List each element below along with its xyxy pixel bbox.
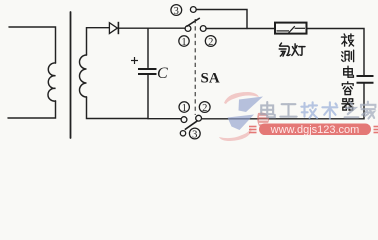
watermark logo swoosh top	[219, 92, 269, 141]
wire contact 3 top to junction	[196, 10, 247, 29]
switch SA top blade	[187, 18, 200, 27]
watermark logo blue wedge lower	[228, 115, 255, 131]
label neon lamp (nai deng)	[279, 43, 305, 56]
transformer core	[70, 12, 72, 138]
switch SA top pole contacts	[185, 7, 206, 32]
wm char shu	[322, 102, 337, 118]
char bei	[341, 34, 353, 46]
wire bottom to switch pole 2	[148, 118, 181, 120]
capacitor C polarity plus	[131, 57, 138, 64]
terminal label 1 bottom	[179, 102, 189, 112]
char rong	[342, 82, 353, 95]
wire bottom-left primary lead	[8, 101, 56, 118]
transformer T1 primary winding	[48, 63, 56, 101]
watermark site name	[261, 102, 375, 119]
wire tested capacitor bottom lead	[202, 84, 364, 119]
label tested capacitor (bei ce dian rong qi) vertical	[341, 34, 353, 110]
tested capacitor Cx plates	[357, 76, 374, 83]
neon lamp box	[275, 23, 307, 34]
wm char jia	[361, 102, 375, 119]
wire secondary top lead	[87, 28, 110, 55]
svg-text:www.dgjs123.com: www.dgjs123.com	[270, 124, 360, 136]
char nai	[279, 43, 290, 56]
terminal label 3 top	[171, 5, 182, 16]
wm char zhi	[345, 102, 359, 117]
char dian	[344, 66, 354, 77]
watermark logo red coil icon	[257, 113, 269, 127]
svg-text:1: 1	[181, 37, 186, 48]
svg-text:C: C	[157, 65, 168, 82]
switch SA linkage dashed line	[194, 19, 196, 115]
char ce	[342, 50, 354, 61]
char qi	[342, 99, 354, 110]
svg-text:3: 3	[192, 129, 197, 140]
watermark logo blue wedge upper	[239, 97, 264, 113]
wm char gong	[280, 104, 296, 117]
wire capacitor C bottom lead	[147, 75, 149, 119]
capacitor C plates	[138, 69, 157, 74]
transformer T1 secondary winding	[80, 55, 87, 97]
wire switch pole1 out to junction	[206, 28, 275, 30]
watermark logo swoosh bottom	[219, 128, 252, 141]
terminal label 3 bottom	[189, 128, 200, 139]
char deng	[292, 44, 305, 56]
svg-text:2: 2	[208, 37, 213, 48]
neon lamp electrodes	[277, 26, 306, 33]
wire diode to switch	[119, 27, 185, 29]
terminal label 2 top	[205, 36, 216, 47]
wire top-left primary lead	[9, 27, 56, 63]
svg-text:2: 2	[202, 103, 207, 114]
wire capacitor C top lead	[147, 28, 149, 67]
wm char ji	[301, 102, 317, 118]
switch SA bottom blade	[185, 121, 198, 130]
terminal label 2 bottom	[199, 102, 210, 113]
terminal label 1 top	[179, 36, 189, 46]
svg-text:1: 1	[182, 103, 187, 114]
svg-text:SA: SA	[201, 71, 220, 87]
wire neon lamp to right corner	[307, 29, 365, 76]
svg-text:3: 3	[174, 6, 179, 17]
watermark url banner	[249, 124, 378, 136]
wire secondary bottom lead	[87, 97, 149, 119]
wm char dian	[261, 102, 275, 117]
switch SA bottom pole contacts	[180, 115, 201, 136]
diode VD	[109, 22, 118, 34]
